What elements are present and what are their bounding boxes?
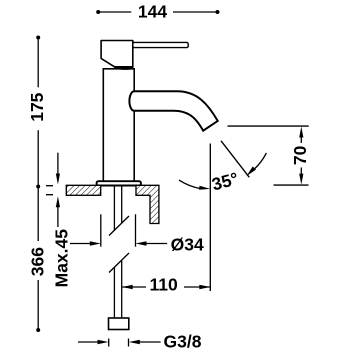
faucet body lower right edge [133,111,135,182]
dim 175/366 vertical line [37,38,39,331]
deck surface extension dashes [46,185,53,187]
dim 110 line [122,286,146,288]
spout [129,91,217,130]
spout tip vertical reference line [209,144,211,292]
dim 70 line with arrows [300,133,302,143]
supply pipe lower [113,268,115,319]
countertop right section [136,185,159,223]
dim 70 extension lines [228,125,309,127]
dim G3/8 right arrow [137,341,161,343]
base plate [97,181,141,185]
handle collar dark band [115,67,134,69]
35 deg right arc arrow [254,153,267,170]
G3/8 nut [109,318,129,330]
svg-text:366: 366 [28,247,48,276]
dim 144 line [98,11,217,13]
svg-text:G3/8: G3/8 [164,331,202,351]
svg-text:110: 110 [150,275,178,295]
dim O34 extension lines [100,214,102,246]
dim O34 left arrow [70,243,92,245]
faucet body [103,69,134,182]
dim Max.45 lower arrow [57,207,59,228]
pipe break slash 2 [109,253,129,273]
35 deg diagonal leg [221,141,249,178]
35 deg left arc arrow [179,180,202,189]
dim dots left [36,36,40,40]
dim O34 right arrow [144,243,167,245]
faucet handle head [101,41,133,67]
dim G3/8 left arrow [78,341,100,343]
pipe break slash 1 [109,216,129,236]
dim G3/8 extension stubs [108,339,110,347]
lever handle [133,42,188,47]
svg-text:70: 70 [290,145,310,165]
dim Max.45 upper arrow [57,153,59,175]
svg-text:Ø34: Ø34 [171,235,204,255]
svg-text:144: 144 [138,2,167,22]
svg-text:175: 175 [27,92,47,121]
countertop left section [66,185,100,195]
svg-text:Max.45: Max.45 [52,229,72,288]
dim 144 end dots [96,10,100,14]
supply pipe upper [113,186,115,231]
